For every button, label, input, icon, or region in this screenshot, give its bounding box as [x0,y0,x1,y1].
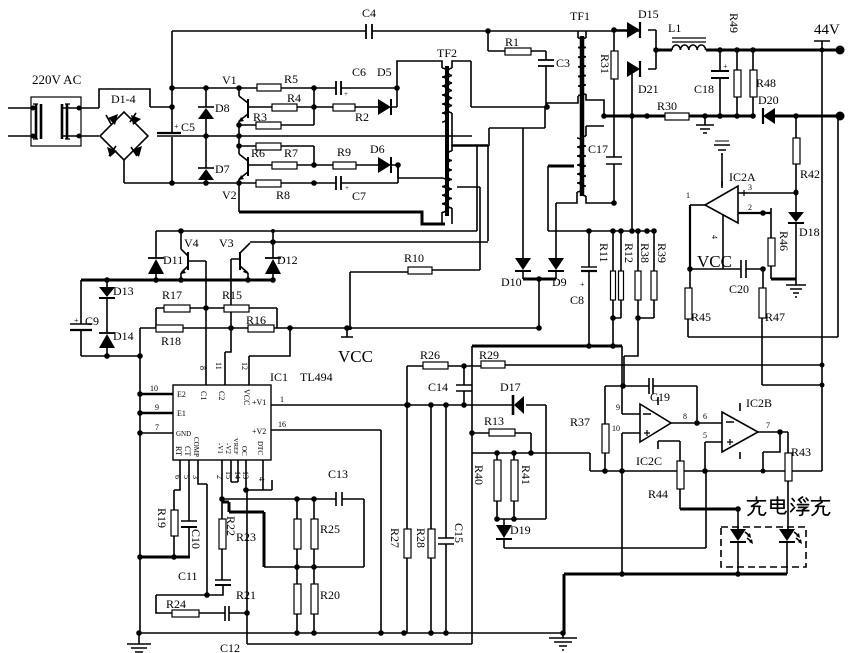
wire feedback row y499 [222,499,364,567]
resistor R22 [219,516,238,580]
dashed LED box [721,527,806,567]
svg-text:TF1: TF1 [570,9,590,23]
resistor R11 [597,231,616,318]
svg-text:C3: C3 [556,56,570,70]
svg-text:C6: C6 [352,65,366,79]
resistor R27 column [388,366,411,633]
resistor R29 [479,348,822,368]
wire R11 R12 bottoms [613,318,621,346]
resistor R25 [311,499,340,567]
resistor R42 [793,116,820,192]
IC1 pin4 DTC wire [262,460,264,490]
svg-text:R28: R28 [414,528,428,548]
svg-text:R15: R15 [222,288,242,302]
svg-text:C11: C11 [178,569,198,583]
resistor R45 [685,269,711,337]
TF2 upper-right winding [448,68,452,113]
capacitor C6 [336,65,366,98]
wire integrator row y386 [605,386,697,423]
wire TF2 right riser to R10 [457,187,480,270]
resistor R37 [570,386,609,471]
svg-text:D9: D9 [552,275,567,289]
svg-text:D14: D14 [113,329,134,343]
svg-text:R4: R4 [287,91,301,105]
svg-text:E1: E1 [177,409,186,418]
svg-text:R48: R48 [756,76,776,90]
resistor R43 [785,432,811,529]
wire R6 row 146 [239,136,314,165]
wire bridge bottom to rail [123,160,125,183]
diode D20 [758,93,779,124]
svg-text:15: 15 [224,471,233,479]
resistor R23 [236,499,301,567]
wire TF2 upper-right top pin to R1 [452,61,545,107]
wire main vertical x172 [171,31,173,183]
svg-text:3: 3 [748,183,752,192]
svg-text:R20: R20 [320,588,340,602]
svg-text:R43: R43 [791,445,811,459]
IC1 pin15 pin14 tie [231,460,238,482]
resistor R28 column [414,405,435,633]
VCC terminal on rail [341,328,353,337]
svg-text:GND: GND [176,430,191,438]
svg-text:6: 6 [173,475,182,479]
transformer TF2 [437,46,457,216]
capacitor C17 [588,142,622,203]
wire TF1 primary top pin [577,31,579,38]
svg-text:C14: C14 [428,380,448,394]
op-amp IC2C [636,397,671,468]
svg-text:6: 6 [703,412,707,421]
svg-text:R37: R37 [570,415,590,429]
wire RC rail thick y557 [140,556,190,559]
wire comparator bus y471 [590,470,822,472]
wire aux supply drop to VCC rail [538,279,540,328]
wire TF1 center tap thick [548,165,574,168]
svg-text:44V: 44V [814,22,840,38]
svg-text:C10: C10 [189,529,203,549]
svg-text:9: 9 [616,403,620,412]
svg-text:13: 13 [241,471,250,479]
resistor R10 [350,251,480,328]
svg-text:+: + [74,316,79,325]
wire TF1 right mid tap to R30 rail [586,94,604,136]
transistor V4 [181,232,206,280]
diode D21 [627,61,659,231]
resistor R46 [768,208,791,279]
bridge diode 1 [106,114,118,125]
capacitor C13 [328,467,348,506]
svg-text:R45: R45 [691,310,711,324]
svg-text:1: 1 [280,395,284,404]
TF1 lower-left winding [577,138,582,192]
svg-text:R46: R46 [777,231,791,251]
svg-text:TF2: TF2 [437,46,457,60]
wire D19 row y548 [504,471,706,548]
wire TF1 secondary top pin [585,31,587,38]
svg-text:R47: R47 [765,310,785,324]
bridge diode 3 [107,146,117,157]
capacitor C14 [428,366,472,405]
wire mid rail 136 [157,135,472,137]
svg-text:12: 12 [240,362,249,370]
capacitor C19 [649,378,670,404]
wire row y453 [472,453,590,471]
diode D18 [788,192,820,279]
svg-text:D8: D8 [215,101,230,115]
capacitor C5 [157,132,181,134]
svg-text:R29: R29 [479,348,499,362]
wire C3 node left to D10 drop [523,107,545,258]
svg-text:R41: R41 [519,465,533,485]
svg-text:14: 14 [233,471,242,479]
wire right edge feedback x822 [821,50,823,471]
wire bottom rail 183 [124,182,398,184]
resistor R24 [156,595,225,617]
svg-text:VCC: VCC [697,252,732,271]
resistor R5 [257,84,281,91]
TF1 core [580,36,585,196]
label charge mode [748,497,787,515]
svg-text:R31: R31 [598,54,612,74]
wire TF1 primary bottom to C3 node [547,96,578,107]
wire TF2 lower-right bottom pin [451,208,453,224]
wire thick comp feed y346 [472,345,622,348]
resistor R44 [648,441,684,509]
svg-text:D20: D20 [758,93,779,107]
svg-text:C20: C20 [729,282,749,296]
svg-text:R23: R23 [236,530,256,544]
svg-text:R26: R26 [420,348,440,362]
svg-text:C12: C12 [220,641,240,653]
IC1 pin3 COMP wire [198,460,207,595]
wire C7 right jog up [397,165,399,183]
wire output staircase to comparator bus [763,432,780,471]
resistor R38 [635,231,652,318]
svg-text:COMP: COMP [192,437,200,457]
LED2 float [779,529,802,574]
svg-text:V4: V4 [184,236,199,250]
svg-text:1: 1 [686,191,690,200]
resistor R9 [333,162,356,169]
inductor L1 [668,21,706,50]
svg-text:C2: C2 [217,391,226,400]
capacitor C12 [220,606,247,653]
diode D8 [198,88,230,136]
resistor R39 [651,231,669,318]
svg-text:C19: C19 [650,390,670,404]
capacitor C7 [336,176,366,203]
IC1 pin11 jog [225,328,231,385]
node V1 emitter dots [236,122,242,128]
wire R38 R39 bottoms staircase [624,318,654,386]
svg-text:C18: C18 [694,82,714,96]
svg-text:11: 11 [214,362,223,370]
resistor R17 [156,288,224,312]
svg-text:IC2C: IC2C [636,454,662,468]
svg-text:4: 4 [710,235,719,239]
TF2 primary upper-left winding [442,68,447,122]
IC1 left pin wires [140,393,173,395]
IC2A pin1 output [690,204,705,206]
node R31 top [611,27,617,33]
IC2A pin2 wire thick [738,212,771,214]
diode D6 [370,142,391,173]
capacitor C3 [538,51,570,107]
diode D15 [614,7,659,69]
svg-text:R11: R11 [597,243,611,263]
svg-text:R16: R16 [246,313,266,327]
resistor R20 [311,567,340,633]
transistor V3 [219,236,488,328]
svg-text:R30: R30 [657,99,677,113]
wire D10-D9 join thick [523,278,556,281]
svg-text:C5: C5 [181,120,195,134]
svg-text:R6: R6 [251,146,265,160]
svg-text:C17: C17 [588,142,608,156]
svg-text:5: 5 [182,475,191,479]
IC1 pin2 -V1 wire [221,460,223,519]
wire bridge output right [150,106,172,108]
wire TF2 drive coupling verticals [452,145,488,241]
ground under D18 [786,279,806,297]
input line transformer [31,97,81,146]
svg-text:E2: E2 [177,390,186,399]
IC1 pin12 jog [249,328,290,385]
svg-text:D12: D12 [277,253,298,267]
svg-text:OC: OC [240,446,248,456]
resistor R26 [407,348,481,369]
svg-text:VCC: VCC [242,389,251,405]
IC1 right pin16 wire [271,430,381,633]
capacitor C20 [729,260,749,296]
capacitor C11 [156,569,231,595]
resistor R7 [272,162,297,169]
wire TF2 primary top pin [397,61,442,88]
svg-text:+V1: +V1 [252,398,266,407]
svg-text:7: 7 [766,421,770,430]
svg-text:R39: R39 [655,243,669,263]
wire ground rail y633 [139,632,563,634]
terminal 44V plus [814,41,830,50]
wire V4 base drop x206 [205,261,207,385]
wire top rail y31 [172,30,639,32]
label float mode [791,497,830,515]
svg-text:C13: C13 [328,467,348,481]
wire AC input top [8,107,99,109]
wire LED return rail thick y574 [564,574,787,633]
op-amp IC2A [705,170,756,223]
resistor R41 [511,453,533,519]
capacitor C15 column [438,405,466,633]
svg-text:2: 2 [215,475,224,479]
resistor R4 [272,104,297,111]
svg-text:R12: R12 [622,243,636,263]
svg-text:CT: CT [183,446,192,456]
svg-text:TL494: TL494 [300,370,333,384]
svg-text:D5: D5 [377,65,392,79]
TF1 upper-left winding [578,38,583,96]
wire IC2A plus input from R42 [794,191,799,196]
svg-text:R25: R25 [320,522,340,536]
svg-text:7: 7 [155,423,159,432]
wire drive rail y231 [156,230,477,232]
svg-text:+: + [580,280,585,289]
svg-text:IC2B: IC2B [746,396,772,410]
ground symbol above IC2A [714,141,730,186]
resistor R6 [256,143,281,150]
wire vcc row y269 [690,268,763,270]
svg-text:D18: D18 [799,225,820,239]
capacitor C8 [570,231,597,346]
IC2B pin7 output [758,431,788,433]
svg-text:IC2A: IC2A [729,170,756,184]
transformer TF1 [570,9,590,196]
IC1 pin6 RT wire + resistor R19 [155,460,182,557]
IC2C pin8 output [671,422,722,424]
terminal output minus [836,112,845,121]
wire terminal2 sense x838 [688,116,838,337]
resistor R13 [472,414,531,453]
svg-text:+: + [345,184,349,192]
svg-text:D17: D17 [500,380,521,394]
svg-text:R5: R5 [284,72,298,86]
wire row y519 [497,518,546,520]
wire TF1 lower-right bottom pin [586,196,614,203]
svg-text:R38: R38 [638,243,652,263]
wire LED1 feed thick y509 [680,508,738,511]
svg-text:8: 8 [683,412,687,421]
svg-text:D19: D19 [510,523,531,537]
ground bottom middle [549,633,577,650]
op-amp IC2B [722,396,772,459]
svg-text:+: + [174,122,179,131]
wire V2 emitter thick drive [238,183,240,212]
svg-text:DTC: DTC [256,441,264,455]
wire R17 left join [155,308,157,328]
svg-text:D15: D15 [638,7,659,21]
svg-text:D13: D13 [113,284,134,298]
TF2 core [445,66,449,216]
svg-text:D21: D21 [638,82,659,96]
svg-text:5: 5 [703,431,707,440]
svg-text:3: 3 [191,475,200,479]
bridge diode 2 [130,113,141,125]
wire D18 R46 join thick [771,278,796,281]
svg-text:C4: C4 [362,6,376,20]
wire V1 base row 107 [248,88,397,107]
svg-text:D11: D11 [163,253,183,267]
diode D9 [548,258,567,289]
wire x488 drop to R1 [487,31,489,51]
resistor R3 [256,122,281,129]
TF1 upper-right winding [581,38,586,94]
wire bottom return rail y644 [247,643,472,645]
IC1 box TL494 [173,385,271,460]
svg-text:+V2: +V2 [252,427,266,436]
resistor R40 [472,453,501,519]
IC1 vcc rail drop x140 [139,328,141,633]
diode D19 [496,519,531,548]
svg-text:2: 2 [748,203,752,212]
svg-text:L1: L1 [668,21,681,35]
wire R3 row 125 [239,88,314,125]
wire row y567 [264,566,364,568]
IC2A pin4 wire [722,214,724,269]
resistor R48 [750,50,776,116]
wire TF1 lower-left bottom pin to D9 [556,192,577,258]
svg-text:R40: R40 [472,465,486,485]
svg-text:R10: R10 [404,251,424,265]
svg-text:V1: V1 [222,73,237,87]
svg-text:220V AC: 220V AC [32,72,81,87]
bridge rectifier D1-4 box [99,89,150,108]
svg-text:R24: R24 [166,597,186,611]
TF1 lower-right winding [581,136,586,196]
diode D7 [198,136,230,183]
wire -V1 feedback staircase thick [222,502,264,567]
svg-text:10: 10 [150,384,158,393]
svg-text:R21: R21 [236,588,256,602]
svg-text:V2: V2 [222,188,237,202]
diode D13 [99,280,134,333]
bridge diode 4 [131,146,142,157]
svg-text:16: 16 [278,420,286,429]
IC2C pin10 wire [622,433,640,574]
resistor R12 [619,231,637,318]
svg-text:R27: R27 [388,528,402,548]
svg-text:R17: R17 [162,288,182,302]
svg-text:D10: D10 [501,275,522,289]
svg-text:R49: R49 [727,13,741,33]
resistor R18 [140,325,248,348]
svg-text:VCC: VCC [338,347,373,366]
transistor V2 [222,146,248,202]
node V2 dots [236,143,242,149]
ground at output rail [696,116,714,133]
wire V2 base row 165 [248,165,442,178]
svg-text:D1-4: D1-4 [111,92,136,106]
svg-text:R8: R8 [276,188,290,202]
resistor R1 [488,35,546,55]
wire AC input bottom [8,135,99,137]
svg-text:D6: D6 [370,142,385,156]
wire y356 [81,355,140,357]
IC2B pin5 wire [705,442,722,471]
svg-text:C1: C1 [199,391,208,400]
wire rail 88 [172,87,397,89]
node dots rail 88 [203,85,209,91]
svg-text:R18: R18 [161,334,181,348]
IC2C pin9 wire [622,386,640,414]
svg-text:V3: V3 [219,236,234,250]
svg-text:R9: R9 [337,145,351,159]
svg-text:R19: R19 [155,508,169,528]
svg-text:C8: C8 [570,293,584,307]
svg-text:C7: C7 [352,189,366,203]
svg-text:8: 8 [198,366,207,370]
diode D5 [377,65,392,115]
wire output rail2 y116 thick [604,115,836,118]
wire TF2 upper-right bottom pin to feedback [452,113,523,146]
diode D17 [500,380,546,519]
svg-text:VREF: VREF [232,438,239,455]
svg-text:C15: C15 [452,523,466,543]
wire output rail 44V y50 thick [656,49,836,52]
resistor R21 [236,567,301,633]
svg-text:R42: R42 [800,167,820,181]
svg-text:10: 10 [612,424,620,433]
